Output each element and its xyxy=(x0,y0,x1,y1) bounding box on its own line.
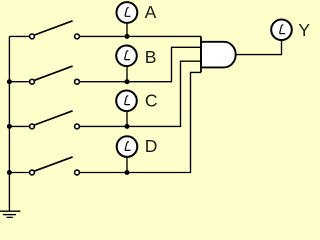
svg-text:D: D xyxy=(145,136,158,156)
junction: bus row D xyxy=(7,170,12,175)
switch SC lever xyxy=(34,111,72,125)
lamp C xyxy=(116,91,137,112)
wire: lamp C stub xyxy=(126,112,128,127)
switch SD right terminal xyxy=(75,170,80,175)
switch SA right terminal xyxy=(75,34,80,39)
wire: row D bus-to-switch xyxy=(9,172,29,174)
junction: row C lamp tap xyxy=(125,124,130,129)
switch SC right terminal xyxy=(75,124,80,129)
junction: row D lamp tap xyxy=(125,170,130,175)
wire: gate output to lamp Y xyxy=(236,40,282,54)
lamp D xyxy=(117,136,138,157)
wire: row B switch to riser to gate input 2 xyxy=(80,47,201,81)
wire: row C bus-to-switch xyxy=(9,125,29,127)
switch SD lever xyxy=(34,157,72,171)
wire: row B bus-to-switch xyxy=(9,81,29,83)
wire: lamp A stub xyxy=(126,24,128,37)
switch SB left terminal xyxy=(30,79,35,84)
svg-text:A: A xyxy=(145,2,157,22)
wire: left ground bus vertical xyxy=(8,36,10,211)
switch SB right terminal xyxy=(75,79,80,84)
switch SB lever xyxy=(34,66,72,80)
wire: row C switch to riser to gate input 3 xyxy=(80,61,201,126)
wire: row A bus-to-switch xyxy=(9,35,29,37)
switch SD left terminal xyxy=(30,170,35,175)
svg-text:C: C xyxy=(145,90,158,110)
wire: lamp D stub xyxy=(126,157,128,172)
ground xyxy=(0,211,20,217)
AND gate U1 input bus edge xyxy=(200,36,202,72)
wire: row D switch to riser to gate input 4 xyxy=(80,72,201,172)
junction: bus row C xyxy=(7,124,12,129)
junction: row A lamp tap xyxy=(125,34,130,39)
switch SA left terminal xyxy=(30,34,35,39)
wire: row A switch to gate input 1 xyxy=(80,35,201,37)
svg-text:Y: Y xyxy=(298,20,310,40)
AND gate U1 body xyxy=(201,42,236,68)
wire: lamp B stub xyxy=(126,67,128,82)
lamp Y xyxy=(271,20,292,41)
switch SC left terminal xyxy=(30,124,35,129)
junction: bus row B xyxy=(7,79,12,84)
junction: row B lamp tap xyxy=(125,79,130,84)
svg-text:B: B xyxy=(145,47,157,67)
switch SA lever xyxy=(34,21,72,35)
lamp A xyxy=(117,2,138,23)
lamp B xyxy=(116,46,137,67)
